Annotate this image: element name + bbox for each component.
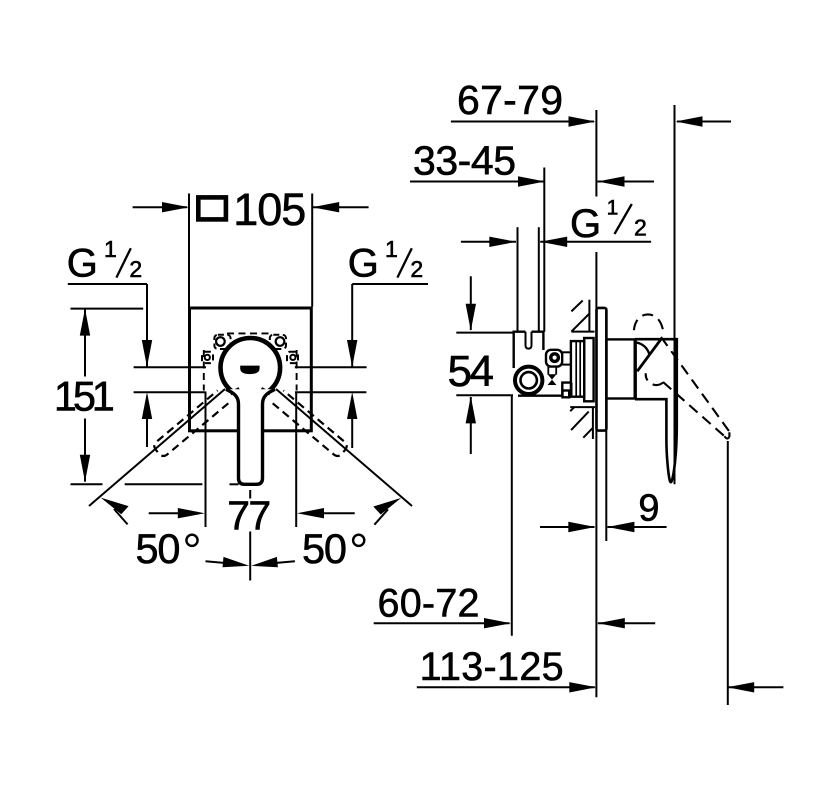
svg-text:2: 2 <box>129 256 142 282</box>
svg-text:G: G <box>67 242 98 286</box>
svg-text:G: G <box>348 242 379 286</box>
svg-text:2: 2 <box>410 256 423 282</box>
svg-text:67-79: 67-79 <box>457 77 563 123</box>
svg-text:50: 50 <box>302 525 347 572</box>
svg-text:2: 2 <box>634 215 647 241</box>
svg-text:113-125: 113-125 <box>420 645 564 689</box>
svg-text:105: 105 <box>233 184 306 235</box>
svg-text:1: 1 <box>385 236 398 262</box>
svg-text:60-72: 60-72 <box>378 582 480 626</box>
svg-text:54: 54 <box>447 347 494 396</box>
svg-text:77: 77 <box>227 493 271 539</box>
svg-text:1: 1 <box>607 197 619 220</box>
svg-text:9: 9 <box>638 488 659 530</box>
svg-text:50: 50 <box>136 525 181 572</box>
svg-text:1: 1 <box>104 236 117 262</box>
svg-text:33-45: 33-45 <box>413 138 516 184</box>
svg-text:151: 151 <box>54 373 115 420</box>
svg-text:G: G <box>570 202 601 246</box>
